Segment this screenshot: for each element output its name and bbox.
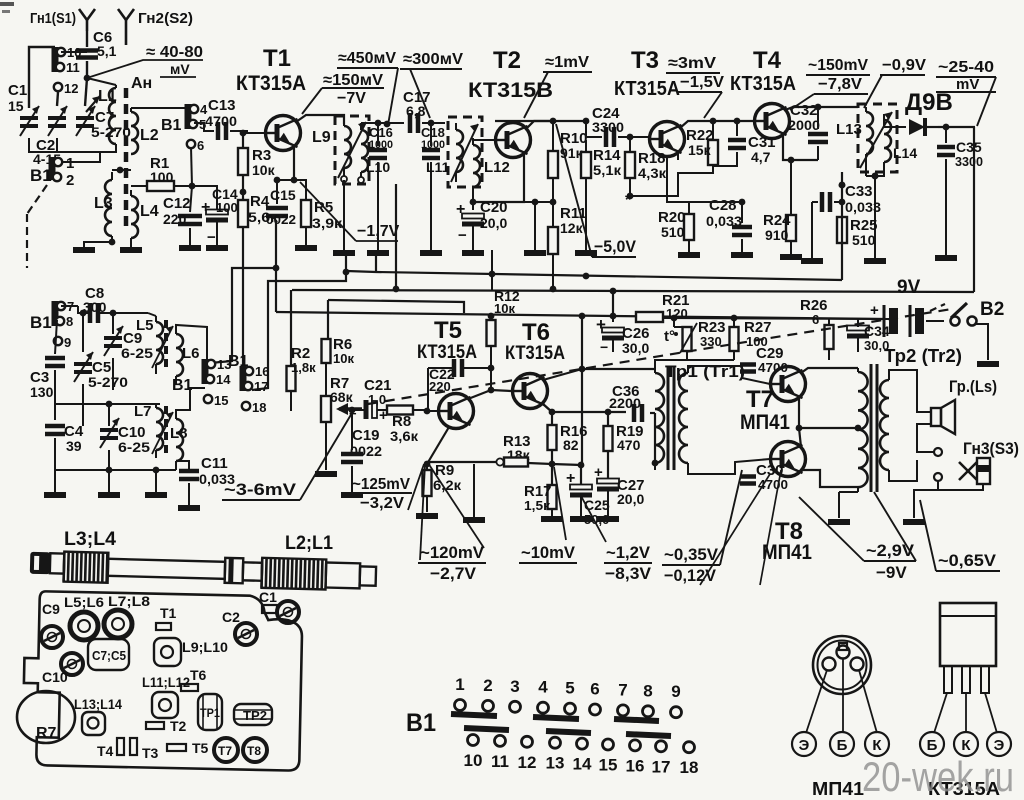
svg-text:2000: 2000 [788, 117, 820, 133]
MP41 case outer [813, 636, 871, 694]
MP41 lead E [806, 670, 827, 733]
switch B1 contacts 7-9 [52, 301, 59, 326]
svg-text:C35: C35 [956, 139, 982, 155]
wire R24 bottom [790, 241, 792, 254]
wire C20 bottom [472, 224, 474, 250]
svg-text:5-270: 5-270 [88, 374, 128, 390]
antenna Гн2 [118, 9, 126, 20]
wire emitter y412 [552, 411, 626, 413]
capacitor C18 [422, 148, 440, 153]
MP41 pin B [837, 646, 850, 659]
wire R26 bottom [828, 349, 830, 360]
switch bar 10-11 [464, 728, 509, 730]
capacitor C12 [178, 214, 202, 219]
inductor L5 [156, 322, 163, 364]
KT315 label E [987, 732, 1011, 756]
svg-text:~150mV: ~150mV [808, 57, 868, 74]
svg-text:C33: C33 [845, 183, 873, 200]
wire C35 bottom [945, 159, 947, 255]
wire C17 to C18 [422, 122, 445, 124]
inductor L11 [456, 130, 463, 172]
svg-text:L14: L14 [893, 145, 917, 161]
svg-text:11: 11 [66, 60, 80, 75]
wire T7 collector [801, 368, 858, 373]
svg-text:L11;L12: L11;L12 [142, 674, 190, 690]
svg-text:L5: L5 [136, 317, 154, 334]
resistor R1 [147, 181, 174, 191]
ground R24 [780, 254, 802, 260]
svg-text:КТ315А: КТ315А [730, 73, 796, 95]
wire R14 bottom [585, 178, 587, 250]
switch pin circle 8 [643, 706, 654, 717]
wire L12 bottom [472, 200, 474, 210]
svg-text:10к: 10к [252, 162, 276, 178]
svg-text:L13: L13 [836, 121, 862, 138]
wire R16 bottom [551, 450, 553, 485]
switch B1 contacts 16-18 [240, 366, 247, 391]
svg-text:17: 17 [254, 379, 268, 394]
PCB part TP2 [234, 704, 272, 725]
svg-text:10к: 10к [494, 301, 515, 316]
wire C27 bottom [607, 489, 609, 517]
switch bar 13-14 [546, 731, 591, 733]
wire C21 left node [349, 407, 356, 414]
svg-text:МП41: МП41 [812, 779, 864, 799]
svg-text:16: 16 [255, 364, 269, 379]
capacitor C13 [216, 122, 221, 140]
svg-text:Э: Э [799, 737, 810, 754]
wire Tp1 sec bottom to T8 base [688, 459, 770, 474]
arrow R7 wiper [339, 407, 362, 411]
ground L3 [73, 247, 95, 253]
transistor T1 [266, 116, 301, 151]
wire C5 [82, 384, 84, 426]
svg-text:T7: T7 [218, 744, 232, 758]
wire B1 pin6 down [191, 147, 192, 186]
diode Д9В [909, 119, 925, 135]
capacitor C3 [45, 356, 65, 361]
svg-text:L7: L7 [134, 403, 152, 420]
ground C27 [597, 516, 619, 522]
resistor R4 [238, 200, 248, 227]
wire T3 emitter [677, 152, 679, 160]
KT315 label K [954, 732, 978, 756]
svg-text:1,8к: 1,8к [291, 360, 316, 375]
svg-text:0,033: 0,033 [845, 199, 881, 215]
wire R1 right to node [174, 185, 192, 187]
PCB part L11;L12 [152, 692, 178, 718]
ground B2 [977, 361, 999, 367]
svg-text:15: 15 [599, 756, 618, 775]
svg-text:100: 100 [150, 169, 174, 185]
svg-text:L4: L4 [140, 203, 159, 220]
svg-text:L12: L12 [484, 159, 510, 176]
svg-text:В2: В2 [980, 299, 1004, 320]
svg-text:T1: T1 [263, 45, 291, 72]
svg-text:L2;L1: L2;L1 [285, 533, 333, 554]
KT315 leg 2 [962, 666, 970, 693]
corner artifact [0, 2, 14, 6]
wire contact12 down [57, 92, 58, 106]
ground R14 [575, 250, 597, 256]
variable capacitor C7a [76, 116, 94, 120]
wire contact10 to antenna node [61, 51, 87, 53]
svg-text:−9V: −9V [876, 563, 907, 582]
ferrite antenna rod [30, 551, 377, 591]
wire L9 bottoms ground [343, 180, 345, 250]
resistor R25 [841, 185, 843, 217]
wire speaker bottom [917, 424, 934, 452]
wire L10 top to C17 [361, 122, 404, 124]
transistor T6 [513, 374, 548, 409]
wire L1 bottom [85, 144, 116, 152]
switch pin circle 16 [630, 740, 641, 751]
svg-text:Б: Б [837, 737, 848, 754]
wire T1 collector [296, 115, 344, 124]
svg-text:t°: t° [664, 328, 675, 345]
resistor R20 [667, 157, 689, 202]
svg-text:−: − [458, 227, 467, 244]
PCB part T8 [243, 738, 267, 762]
wire R8 right [413, 409, 428, 411]
capacitor C35 [937, 145, 955, 150]
switch bar 4-5 [533, 717, 579, 719]
ground C35 [935, 255, 957, 261]
wire jack down [914, 481, 938, 518]
wire Tp1 sec top to T7 base [688, 366, 770, 384]
wire bus A riser x376 [375, 255, 377, 272]
PCB screw C1 [277, 601, 299, 623]
IF transformer L9 L10 dashed box [335, 116, 369, 184]
ferrite core dashed [124, 88, 129, 230]
wire Tp2 bottom gnd [839, 491, 858, 493]
svg-text:L13;L14: L13;L14 [74, 696, 122, 712]
wire R25 bottom to rail [841, 243, 843, 280]
svg-text:−0,12V: −0,12V [664, 566, 717, 585]
svg-text:18: 18 [252, 400, 266, 415]
MP41 pin K [851, 658, 864, 671]
ground jack [903, 519, 925, 525]
svg-text:C9: C9 [42, 601, 60, 617]
capacitor C31 [728, 138, 746, 143]
wire R1 left to L4 [131, 185, 147, 187]
svg-text:C12: C12 [163, 195, 191, 212]
wire T4 collector [785, 107, 858, 110]
svg-text:16: 16 [626, 756, 645, 775]
wire R11 bottom to rail [552, 254, 554, 289]
trimmer C10 [100, 428, 118, 432]
wire diode out [938, 126, 975, 128]
MP41 case inner [818, 641, 867, 690]
svg-text:~2,9V: ~2,9V [866, 541, 915, 560]
svg-text:ТР1: ТР1 [200, 706, 220, 720]
wire C6 to node [86, 61, 88, 78]
wire x492 drop [491, 250, 493, 291]
resistor R12 [487, 320, 496, 346]
svg-text:C13: C13 [208, 97, 236, 114]
svg-text:1,5к: 1,5к [524, 498, 551, 513]
svg-text:C1: C1 [8, 82, 27, 99]
resistor R6 [322, 339, 331, 363]
svg-text:~3-6mV: ~3-6mV [224, 480, 297, 499]
ground Tp2 [828, 519, 850, 525]
wire bus C [328, 300, 464, 313]
ground C12 [179, 245, 201, 251]
inductor L1 [109, 88, 116, 144]
inductor L13 [866, 112, 873, 154]
svg-text:КТ315А: КТ315А [614, 78, 680, 100]
svg-text:14: 14 [573, 755, 592, 774]
svg-text:L11: L11 [426, 159, 450, 175]
svg-text:+: + [870, 302, 879, 319]
KT315 label B [920, 732, 944, 756]
svg-text:−7V: −7V [337, 90, 366, 107]
switch pin circle 5 [565, 703, 576, 714]
core L7L8 [164, 406, 168, 458]
svg-text:Гн2(S2): Гн2(S2) [138, 10, 193, 27]
KT315 lead E [985, 693, 997, 733]
svg-text:~125mV: ~125mV [352, 476, 410, 493]
svg-text:T3: T3 [631, 47, 659, 74]
wire C12 [190, 186, 192, 212]
svg-text:C25: C25 [584, 497, 610, 513]
svg-text:−1,5V: −1,5V [680, 74, 724, 91]
svg-text:510: 510 [661, 224, 685, 240]
svg-text:C10: C10 [42, 669, 68, 685]
svg-text:C20: C20 [480, 199, 508, 216]
switch B1 contacts 4-6 [185, 104, 192, 129]
inductor L6 [176, 334, 183, 376]
switch pin circle 15 [603, 739, 614, 750]
svg-text:В1: В1 [228, 353, 249, 370]
svg-text:6-25: 6-25 [121, 345, 153, 361]
svg-text:20-wek.ru: 20-wek.ru [862, 753, 1014, 800]
svg-text:L8: L8 [170, 425, 188, 442]
capacitor C24 [604, 127, 609, 147]
resistor R18 [629, 137, 631, 152]
wire C16 [377, 123, 379, 146]
ground C14 [206, 245, 228, 251]
wire contacts1-2 to L1 [62, 152, 100, 162]
ground C28 [731, 252, 753, 258]
core L5L6 [164, 320, 168, 372]
svg-text:В1: В1 [406, 709, 436, 737]
resistor R21 [636, 312, 663, 322]
wire T2 collector bus [495, 120, 586, 122]
svg-text:4,3к: 4,3к [638, 165, 667, 181]
svg-text:17: 17 [652, 757, 671, 776]
svg-text:Тр1 (Тr1): Тр1 (Тr1) [665, 362, 745, 381]
PCB part C1 [262, 605, 277, 613]
svg-text:18: 18 [680, 758, 699, 777]
svg-text:8: 8 [66, 314, 73, 329]
wire R4 bottom to B1 contact16 [242, 227, 244, 370]
svg-text:220: 220 [163, 211, 187, 227]
svg-text:Тр2 (Tr2): Тр2 (Tr2) [884, 346, 962, 366]
wire bus B 9V rail [292, 290, 974, 292]
wire C31 bottom [713, 152, 737, 166]
wire C25 [552, 464, 581, 484]
svg-text:T8: T8 [247, 744, 261, 758]
switch bar 7-8 [614, 719, 659, 721]
switch B1 contacts 10-12 [52, 47, 59, 72]
wire bus A riser right [841, 172, 843, 280]
wire L14 top to diode [884, 114, 906, 127]
svg-text:T1: T1 [160, 605, 177, 621]
svg-text:1000: 1000 [369, 139, 393, 151]
svg-text:130: 130 [30, 384, 54, 400]
wire C18 [430, 123, 432, 146]
wire R21 right [663, 318, 884, 319]
ground R7 [315, 471, 337, 477]
transformer Tp1 primary [655, 373, 664, 463]
svg-text:Ан: Ан [131, 75, 152, 92]
callout ≈40-80 мV [90, 60, 203, 77]
tuning arrow L11L12 [451, 124, 478, 182]
wire L2 top to B1 pin4 [131, 107, 188, 109]
tuning arrow L7L8 [152, 412, 173, 454]
svg-text:МП41: МП41 [740, 411, 790, 434]
svg-text:68к: 68к [330, 389, 354, 405]
wire L14 bottom to node [875, 172, 884, 176]
switch B2 [951, 317, 960, 326]
switch pin circle 12 [522, 736, 533, 747]
svg-text:К: К [961, 737, 971, 754]
wire C24 wiring [585, 121, 587, 137]
wire right vertical detector [973, 127, 975, 292]
svg-text:~25-40: ~25-40 [938, 59, 994, 76]
wire L12 top to T2 base [473, 138, 495, 140]
wire T3 collector [680, 121, 713, 128]
transformer Tp1 core [667, 366, 670, 470]
transformer Tp2 secondary [880, 380, 889, 470]
svg-text:C11: C11 [201, 455, 228, 472]
KT315 lead K [965, 693, 967, 733]
switch pin circle 18 [684, 742, 695, 753]
jack symbol [959, 462, 977, 480]
resistor R11 [548, 227, 558, 254]
wire S to contact13 [210, 268, 276, 363]
tuning arrow L1 [86, 96, 100, 112]
wire node to C7a [85, 78, 87, 106]
svg-text:C16: C16 [369, 125, 393, 140]
leader lines output [700, 474, 770, 585]
wire node down gnd [874, 176, 876, 258]
svg-text:9: 9 [671, 682, 680, 701]
svg-text:В1: В1 [30, 313, 52, 332]
svg-text:−0,9V: −0,9V [882, 57, 926, 74]
wire T7T8 mid [799, 427, 858, 429]
svg-text:мV: мV [170, 61, 190, 77]
svg-text:T5: T5 [434, 317, 462, 344]
wire C8 to L5 [148, 313, 156, 316]
wire bus B riser left [395, 184, 397, 289]
PCB toroid L5L6 [70, 612, 98, 640]
PCB part TP1 [198, 694, 222, 730]
inductor L8 [176, 419, 183, 461]
svg-text:3,6к: 3,6к [390, 428, 419, 444]
svg-text:82: 82 [563, 437, 579, 453]
svg-text:7: 7 [618, 680, 627, 699]
wire bus C riser [327, 300, 329, 339]
svg-text:9V: 9V [897, 277, 921, 298]
resistor R17 [548, 485, 557, 509]
svg-text:≈450мV: ≈450мV [338, 50, 396, 67]
wire T6 emitter [543, 404, 552, 412]
svg-text:4700: 4700 [205, 113, 237, 129]
svg-text:6: 6 [590, 680, 599, 699]
PCB screw C2 [235, 623, 257, 645]
svg-text:C1: C1 [259, 589, 277, 605]
MP41 label E [792, 732, 816, 756]
transformer Tp2 primary [858, 372, 868, 487]
svg-text:1000: 1000 [421, 139, 445, 151]
transistor T4 [755, 104, 790, 139]
PCB part T6 [181, 684, 198, 691]
ground R20 [678, 252, 700, 258]
svg-text:1: 1 [66, 155, 74, 172]
svg-text:6: 6 [812, 312, 819, 327]
svg-text:15: 15 [8, 98, 24, 114]
svg-text:C19: C19 [352, 427, 380, 444]
variable capacitor C2 [48, 116, 66, 120]
node bus B x553 [550, 286, 557, 293]
ground C20 [462, 250, 484, 256]
wire R22 bottom [630, 165, 713, 196]
wire C15 to bus D [275, 220, 277, 312]
IF transformer L13 L14 dashed box [858, 104, 897, 172]
svg-text:T6: T6 [522, 319, 550, 346]
svg-text:2200: 2200 [609, 395, 641, 411]
svg-text:5,1к: 5,1к [593, 162, 622, 178]
wire contact top to left rail [29, 47, 55, 108]
node R3 base [240, 130, 247, 137]
wire C26 feed [612, 316, 614, 322]
svg-text:L9;L10: L9;L10 [182, 639, 228, 655]
MP41 label K [865, 732, 889, 756]
switch pin circle 3 [510, 701, 521, 712]
MP41 lead B [842, 658, 844, 733]
wire C16 gnd [367, 250, 389, 256]
svg-text:≈150мV: ≈150мV [323, 72, 383, 89]
resistor R5 [294, 180, 306, 200]
wire C18 gnd [420, 250, 442, 256]
ground C19 [341, 492, 363, 498]
resistor R10 [552, 121, 554, 151]
svg-text:КТ315А: КТ315А [236, 72, 306, 95]
trimmer bottoms common wire [29, 138, 85, 152]
dashed AGC link [368, 309, 952, 404]
svg-text:mV: mV [956, 76, 979, 93]
trimmer C9 [104, 336, 122, 340]
PCB part T5 [167, 744, 186, 751]
svg-text:C7;C5: C7;C5 [92, 648, 126, 663]
switch pin circle 14 [577, 738, 588, 749]
PCB part T7 [214, 738, 238, 762]
wire R20 bottom [688, 240, 690, 252]
svg-text:Э: Э [994, 737, 1005, 754]
MP41 pin E [823, 658, 836, 671]
wire C8 right [98, 312, 148, 314]
PCB toroid L7L8 [104, 610, 132, 638]
wire T5 emitter [427, 427, 449, 464]
svg-text:15к: 15к [688, 142, 712, 158]
wire L6 top [176, 325, 207, 360]
svg-text:4: 4 [538, 678, 548, 697]
wire bus A [347, 271, 842, 280]
svg-text:Гр.(Ls): Гр.(Ls) [949, 377, 997, 396]
inductor L7 [156, 408, 163, 450]
